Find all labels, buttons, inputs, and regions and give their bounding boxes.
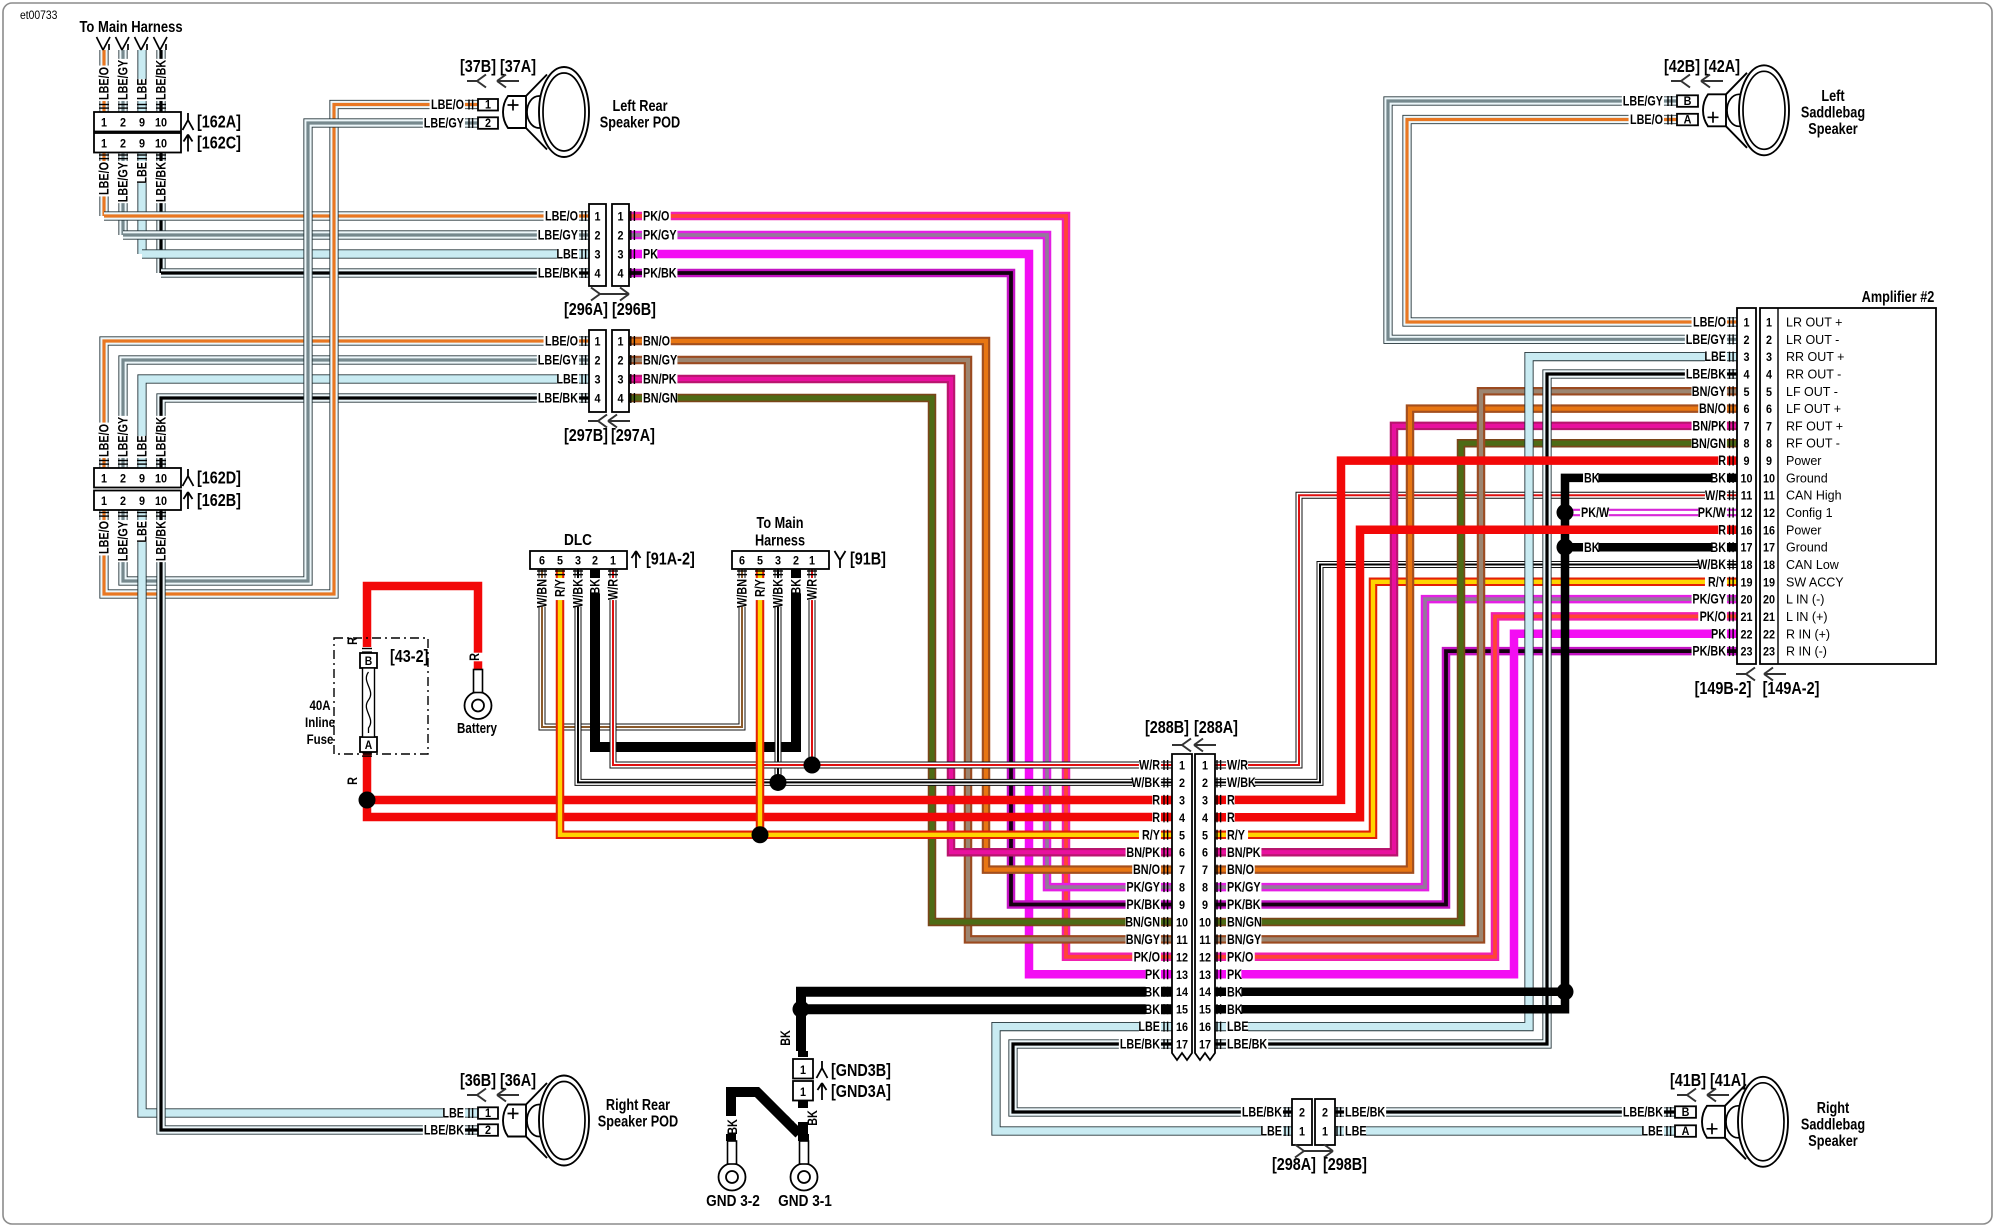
svg-text:8: 8: [1743, 438, 1749, 451]
svg-text:GND 3-2: GND 3-2: [706, 1193, 760, 1210]
svg-text:LBE/BK: LBE/BK: [538, 390, 578, 405]
svg-text:1: 1: [594, 336, 601, 349]
svg-text:8: 8: [1766, 438, 1772, 451]
svg-text:B: B: [1684, 95, 1692, 108]
svg-text:3: 3: [1202, 795, 1208, 808]
svg-text:W/BK: W/BK: [1697, 557, 1726, 572]
svg-text:LBE/GY: LBE/GY: [538, 352, 578, 367]
svg-text:BN/PK: BN/PK: [1692, 418, 1726, 433]
svg-text:R: R: [467, 653, 482, 661]
svg-text:Harness: Harness: [755, 532, 805, 549]
svg-text:LBE: LBE: [134, 435, 149, 457]
svg-text:PK/O: PK/O: [1700, 609, 1726, 624]
svg-text:LBE/O: LBE/O: [1693, 314, 1726, 329]
svg-text:R/Y: R/Y: [1708, 574, 1726, 589]
svg-text:20: 20: [1740, 594, 1752, 607]
svg-text:[149A-2]: [149A-2]: [1763, 679, 1820, 699]
svg-text:BK: BK: [1584, 540, 1600, 555]
svg-text:W/R: W/R: [1227, 757, 1248, 772]
svg-text:[43-2]: [43-2]: [390, 647, 428, 667]
svg-text:16: 16: [1176, 1022, 1188, 1035]
svg-text:PK/O: PK/O: [643, 208, 669, 223]
svg-text:1: 1: [617, 211, 624, 224]
svg-text:1: 1: [809, 555, 816, 568]
svg-text:[GND3A]: [GND3A]: [831, 1082, 891, 1102]
svg-text:1: 1: [1202, 760, 1209, 773]
svg-text:10: 10: [155, 473, 167, 486]
svg-text:PK/BK: PK/BK: [1126, 897, 1160, 912]
svg-text:W/BK: W/BK: [1227, 775, 1256, 790]
svg-text:4: 4: [1202, 812, 1209, 825]
svg-text:5: 5: [557, 555, 564, 568]
svg-text:BN/GN: BN/GN: [643, 390, 678, 405]
svg-text:R/Y: R/Y: [552, 579, 567, 597]
svg-text:[36A]: [36A]: [500, 1071, 536, 1091]
svg-text:W/R: W/R: [605, 579, 620, 600]
svg-text:To Main: To Main: [756, 515, 803, 532]
svg-text:W/BK: W/BK: [1131, 775, 1160, 790]
svg-text:Left Rear: Left Rear: [612, 98, 667, 115]
svg-text:11: 11: [1176, 934, 1188, 947]
svg-text:12: 12: [1176, 952, 1188, 965]
svg-text:BK: BK: [587, 579, 602, 595]
svg-text:4: 4: [617, 393, 624, 406]
svg-text:LBE/BK: LBE/BK: [1120, 1036, 1160, 1051]
svg-text:LBE/BK: LBE/BK: [153, 162, 168, 202]
svg-text:7: 7: [1179, 865, 1185, 878]
svg-text:40A: 40A: [309, 697, 330, 713]
svg-text:BN/GY: BN/GY: [643, 352, 677, 367]
svg-text:BK: BK: [1227, 1002, 1243, 1017]
svg-text:PK/BK: PK/BK: [643, 265, 677, 280]
svg-text:[162A]: [162A]: [197, 112, 241, 132]
svg-text:LBE/BK: LBE/BK: [153, 417, 168, 457]
svg-text:9: 9: [139, 496, 145, 509]
svg-text:23: 23: [1763, 646, 1775, 659]
svg-text:9: 9: [139, 117, 145, 130]
svg-text:LR OUT -: LR OUT -: [1786, 333, 1839, 347]
svg-text:1: 1: [1179, 760, 1186, 773]
svg-text:LBE: LBE: [1227, 1019, 1249, 1034]
svg-text:15: 15: [1199, 1004, 1212, 1017]
svg-text:LBE: LBE: [556, 371, 578, 386]
svg-text:LBE/O: LBE/O: [96, 424, 111, 457]
svg-text:2: 2: [592, 555, 598, 568]
svg-text:3: 3: [1179, 795, 1185, 808]
svg-text:16: 16: [1199, 1022, 1211, 1035]
svg-text:BK: BK: [1584, 470, 1600, 485]
svg-text:10: 10: [1763, 473, 1775, 486]
svg-text:R: R: [345, 777, 360, 785]
svg-text:Power: Power: [1786, 523, 1821, 537]
svg-text:R: R: [1718, 453, 1726, 468]
svg-text:RR OUT +: RR OUT +: [1786, 350, 1844, 364]
svg-text:2: 2: [1299, 1107, 1305, 1120]
svg-text:10: 10: [1740, 473, 1752, 486]
svg-text:RR OUT -: RR OUT -: [1786, 367, 1841, 381]
svg-text:1: 1: [101, 138, 108, 151]
svg-text:9: 9: [139, 473, 145, 486]
svg-text:2: 2: [594, 355, 600, 368]
svg-text:6: 6: [1743, 404, 1749, 417]
svg-text:BK: BK: [725, 1119, 740, 1135]
svg-text:2: 2: [1766, 334, 1772, 347]
svg-text:2: 2: [485, 117, 491, 130]
svg-text:LBE: LBE: [1345, 1123, 1367, 1138]
svg-text:[91A-2]: [91A-2]: [646, 549, 695, 569]
svg-text:3: 3: [594, 374, 600, 387]
svg-text:PK/W: PK/W: [1698, 505, 1727, 520]
svg-text:12: 12: [1199, 952, 1211, 965]
svg-text:PK/GY: PK/GY: [1126, 880, 1160, 895]
svg-text:3: 3: [617, 249, 623, 262]
svg-text:LBE/O: LBE/O: [545, 333, 578, 348]
svg-text:B: B: [1682, 1106, 1690, 1119]
svg-text:R: R: [1718, 522, 1726, 537]
svg-text:Speaker: Speaker: [1808, 121, 1858, 138]
svg-text:BN/O: BN/O: [1227, 862, 1254, 877]
svg-text:17: 17: [1176, 1039, 1188, 1052]
svg-text:Config 1: Config 1: [1786, 506, 1833, 520]
svg-text:3: 3: [594, 249, 600, 262]
svg-text:3: 3: [775, 555, 781, 568]
svg-text:B: B: [365, 656, 373, 669]
svg-text:SW ACCY: SW ACCY: [1786, 575, 1844, 589]
svg-text:W/BN: W/BN: [534, 579, 549, 608]
svg-text:LBE: LBE: [442, 1105, 464, 1120]
svg-text:18: 18: [1740, 560, 1752, 573]
svg-text:LBE: LBE: [1641, 1123, 1663, 1138]
svg-text:[297B]: [297B]: [564, 426, 608, 446]
svg-text:2: 2: [120, 496, 126, 509]
svg-text:LBE/BK: LBE/BK: [1242, 1104, 1282, 1119]
svg-text:17: 17: [1740, 542, 1752, 555]
svg-text:LBE/BK: LBE/BK: [1686, 366, 1726, 381]
svg-text:RF OUT -: RF OUT -: [1786, 437, 1840, 451]
svg-text:14: 14: [1176, 987, 1189, 1000]
svg-text:BK: BK: [1710, 540, 1726, 555]
svg-text:L IN (+): L IN (+): [1786, 610, 1828, 624]
svg-text:[42B]: [42B]: [1664, 57, 1700, 77]
svg-text:9: 9: [1202, 900, 1208, 913]
svg-text:BN/GN: BN/GN: [1125, 914, 1160, 929]
svg-text:11: 11: [1741, 490, 1753, 503]
svg-text:R: R: [1152, 792, 1160, 807]
svg-text:[41B]: [41B]: [1670, 1071, 1706, 1091]
svg-text:BN/O: BN/O: [643, 333, 670, 348]
svg-text:LBE/GY: LBE/GY: [115, 417, 130, 457]
svg-text:Battery: Battery: [457, 720, 498, 737]
svg-text:8: 8: [1179, 882, 1185, 895]
svg-text:1: 1: [610, 555, 617, 568]
svg-text:1: 1: [800, 1065, 807, 1078]
svg-text:1: 1: [594, 211, 601, 224]
svg-text:Right: Right: [1817, 1100, 1850, 1117]
svg-text:[297A]: [297A]: [611, 426, 655, 446]
svg-text:PK/BK: PK/BK: [1227, 897, 1261, 912]
svg-text:BK: BK: [788, 579, 803, 595]
svg-text:2: 2: [793, 555, 799, 568]
svg-text:BK: BK: [1144, 984, 1160, 999]
svg-text:5: 5: [1766, 386, 1773, 399]
svg-text:LBE: LBE: [1138, 1019, 1160, 1034]
svg-text:LBE: LBE: [1704, 349, 1726, 364]
svg-text:4: 4: [1766, 369, 1773, 382]
svg-text:17: 17: [1199, 1039, 1211, 1052]
svg-text:12: 12: [1740, 508, 1752, 521]
svg-text:9: 9: [1766, 456, 1772, 469]
svg-text:4: 4: [594, 268, 601, 281]
svg-text:1: 1: [101, 117, 108, 130]
svg-text:CAN Low: CAN Low: [1786, 558, 1840, 572]
svg-text:22: 22: [1740, 629, 1752, 642]
svg-text:13: 13: [1176, 969, 1188, 982]
svg-text:W/BK: W/BK: [770, 579, 785, 608]
svg-text:LBE/O: LBE/O: [1630, 112, 1663, 127]
svg-text:19: 19: [1740, 577, 1752, 590]
svg-text:3: 3: [575, 555, 581, 568]
svg-text:[298A]: [298A]: [1272, 1155, 1316, 1175]
svg-text:3: 3: [1743, 352, 1749, 365]
svg-text:DLC: DLC: [564, 532, 592, 549]
svg-text:2: 2: [1743, 334, 1749, 347]
svg-text:PK/BK: PK/BK: [1692, 644, 1726, 659]
svg-text:LR OUT +: LR OUT +: [1786, 316, 1842, 330]
svg-text:1: 1: [800, 1087, 807, 1100]
svg-text:[41A]: [41A]: [1710, 1071, 1746, 1091]
svg-text:Amplifier #2: Amplifier #2: [1862, 289, 1935, 306]
svg-text:22: 22: [1763, 629, 1775, 642]
svg-text:19: 19: [1763, 577, 1775, 590]
svg-text:BK: BK: [778, 1030, 793, 1046]
svg-text:20: 20: [1763, 594, 1775, 607]
svg-text:CAN High: CAN High: [1786, 489, 1842, 503]
svg-text:LBE/BK: LBE/BK: [424, 1122, 464, 1137]
svg-text:[37A]: [37A]: [500, 57, 536, 77]
svg-text:2: 2: [1202, 777, 1208, 790]
svg-text:PK/GY: PK/GY: [1692, 592, 1726, 607]
svg-text:4: 4: [1743, 369, 1750, 382]
svg-text:6: 6: [739, 555, 745, 568]
svg-text:4: 4: [1179, 812, 1186, 825]
svg-text:W/BN: W/BN: [734, 579, 749, 608]
svg-text:LBE/BK: LBE/BK: [1227, 1036, 1267, 1051]
svg-text:BN/O: BN/O: [1133, 862, 1160, 877]
svg-text:2: 2: [594, 230, 600, 243]
svg-text:[162B]: [162B]: [197, 491, 241, 511]
svg-text:13: 13: [1199, 969, 1211, 982]
svg-text:7: 7: [1202, 865, 1208, 878]
svg-text:BN/PK: BN/PK: [1126, 845, 1160, 860]
svg-text:LBE/O: LBE/O: [96, 521, 111, 554]
svg-text:3: 3: [617, 374, 623, 387]
svg-text:6: 6: [1766, 404, 1772, 417]
svg-text:Speaker POD: Speaker POD: [598, 1113, 678, 1130]
svg-text:LBE/GY: LBE/GY: [115, 162, 130, 202]
svg-text:[162C]: [162C]: [197, 133, 241, 153]
svg-text:Power: Power: [1786, 454, 1821, 468]
svg-text:BN/GY: BN/GY: [1227, 932, 1261, 947]
svg-text:LF OUT -: LF OUT -: [1786, 385, 1838, 399]
svg-text:W/BK: W/BK: [570, 579, 585, 608]
svg-text:2: 2: [617, 355, 623, 368]
svg-text:16: 16: [1740, 525, 1752, 538]
svg-text:A: A: [365, 740, 373, 753]
svg-text:LBE/O: LBE/O: [431, 97, 464, 112]
svg-text:[296B]: [296B]: [612, 300, 656, 320]
svg-text:12: 12: [1763, 508, 1775, 521]
svg-text:10: 10: [1199, 917, 1211, 930]
svg-text:LBE/GY: LBE/GY: [115, 60, 130, 100]
svg-text:2: 2: [1322, 1107, 1328, 1120]
svg-text:BK: BK: [1144, 1002, 1160, 1017]
svg-text:Speaker: Speaker: [1808, 1133, 1858, 1150]
svg-text:PK: PK: [1227, 967, 1242, 982]
svg-text:LBE: LBE: [556, 246, 578, 261]
svg-text:W/R: W/R: [1139, 757, 1160, 772]
svg-text:10: 10: [155, 117, 167, 130]
svg-text:21: 21: [1763, 611, 1776, 624]
svg-text:BK: BK: [805, 1110, 820, 1126]
svg-text:RF OUT +: RF OUT +: [1786, 419, 1843, 433]
svg-text:[37B]: [37B]: [460, 57, 496, 77]
svg-text:BN/PK: BN/PK: [643, 371, 677, 386]
svg-text:7: 7: [1766, 421, 1772, 434]
svg-text:23: 23: [1740, 646, 1752, 659]
svg-text:5: 5: [1743, 386, 1750, 399]
svg-text:PK: PK: [643, 246, 658, 261]
svg-text:10: 10: [155, 496, 167, 509]
svg-text:LBE/BK: LBE/BK: [153, 521, 168, 561]
svg-text:L IN (-): L IN (-): [1786, 593, 1824, 607]
svg-text:BK: BK: [1710, 470, 1726, 485]
svg-text:1: 1: [101, 496, 108, 509]
svg-text:5: 5: [1202, 830, 1209, 843]
svg-text:5: 5: [1179, 830, 1186, 843]
svg-text:4: 4: [594, 393, 601, 406]
svg-text:[162D]: [162D]: [197, 468, 241, 488]
svg-text:BN/PK: BN/PK: [1227, 845, 1261, 860]
svg-text:15: 15: [1176, 1004, 1189, 1017]
svg-text:PK/GY: PK/GY: [1227, 880, 1261, 895]
svg-text:1: 1: [1299, 1126, 1306, 1139]
svg-text:PK/O: PK/O: [1227, 949, 1253, 964]
svg-text:LBE: LBE: [134, 521, 149, 543]
svg-text:[298B]: [298B]: [1323, 1155, 1367, 1175]
svg-text:LBE/BK: LBE/BK: [153, 60, 168, 100]
svg-text:2: 2: [617, 230, 623, 243]
svg-text:To Main Harness: To Main Harness: [79, 19, 182, 36]
svg-text:21: 21: [1740, 611, 1753, 624]
svg-text:LBE/O: LBE/O: [96, 162, 111, 195]
svg-text:PK: PK: [1145, 967, 1160, 982]
svg-text:2: 2: [1179, 777, 1185, 790]
svg-text:PK: PK: [1711, 626, 1726, 641]
svg-text:[296A]: [296A]: [564, 300, 608, 320]
svg-text:9: 9: [1179, 900, 1185, 913]
svg-text:BN/GY: BN/GY: [1126, 932, 1160, 947]
svg-text:BK: BK: [1227, 984, 1243, 999]
svg-text:BN/GN: BN/GN: [1227, 914, 1262, 929]
svg-text:PK/GY: PK/GY: [643, 227, 677, 242]
svg-text:BN/GY: BN/GY: [1692, 384, 1726, 399]
svg-text:LBE/GY: LBE/GY: [1686, 332, 1726, 347]
svg-text:6: 6: [539, 555, 545, 568]
svg-text:6: 6: [1179, 847, 1185, 860]
svg-text:PK/W: PK/W: [1581, 505, 1610, 520]
svg-text:16: 16: [1763, 525, 1775, 538]
svg-text:BN/O: BN/O: [1699, 401, 1726, 416]
svg-text:A: A: [1684, 114, 1692, 127]
svg-text:1: 1: [485, 99, 492, 112]
svg-text:1: 1: [485, 1107, 492, 1120]
svg-text:BN/GN: BN/GN: [1691, 436, 1726, 451]
svg-text:1: 1: [617, 336, 624, 349]
svg-text:Left: Left: [1821, 88, 1845, 105]
svg-text:R/Y: R/Y: [752, 579, 767, 597]
svg-text:W/R: W/R: [1705, 488, 1726, 503]
svg-text:R IN (+): R IN (+): [1786, 627, 1830, 641]
svg-text:2: 2: [120, 117, 126, 130]
svg-text:[288B]: [288B]: [1145, 718, 1189, 738]
svg-text:6: 6: [1202, 847, 1208, 860]
svg-text:[36B]: [36B]: [460, 1071, 496, 1091]
svg-text:[149B-2]: [149B-2]: [1695, 679, 1752, 699]
svg-text:PK/O: PK/O: [1134, 949, 1160, 964]
svg-text:LBE/BK: LBE/BK: [538, 265, 578, 280]
svg-text:LBE/GY: LBE/GY: [115, 521, 130, 561]
svg-text:LBE/GY: LBE/GY: [1623, 93, 1663, 108]
svg-text:LBE/O: LBE/O: [96, 67, 111, 100]
svg-text:Saddlebag: Saddlebag: [1801, 1116, 1865, 1133]
svg-text:8: 8: [1202, 882, 1208, 895]
svg-text:Ground: Ground: [1786, 471, 1828, 485]
svg-text:[288A]: [288A]: [1194, 718, 1238, 738]
svg-text:[42A]: [42A]: [1704, 57, 1740, 77]
svg-text:4: 4: [617, 268, 624, 281]
svg-text:17: 17: [1763, 542, 1775, 555]
svg-text:11: 11: [1199, 934, 1211, 947]
svg-text:5: 5: [757, 555, 764, 568]
svg-text:LBE/BK: LBE/BK: [1623, 1104, 1663, 1119]
svg-text:LBE: LBE: [1260, 1123, 1282, 1138]
svg-text:et00733: et00733: [20, 10, 57, 23]
svg-text:Inline: Inline: [305, 714, 335, 730]
svg-text:R IN (-): R IN (-): [1786, 645, 1827, 659]
svg-text:LBE: LBE: [134, 78, 149, 100]
svg-text:LBE/GY: LBE/GY: [538, 227, 578, 242]
svg-text:1: 1: [1743, 317, 1750, 330]
svg-text:[GND3B]: [GND3B]: [831, 1061, 891, 1081]
svg-text:LBE/BK: LBE/BK: [1345, 1104, 1385, 1119]
svg-text:11: 11: [1763, 490, 1775, 503]
svg-text:R/Y: R/Y: [1227, 827, 1245, 842]
svg-text:10: 10: [155, 138, 167, 151]
svg-text:3: 3: [1766, 352, 1772, 365]
svg-text:[91B]: [91B]: [850, 549, 886, 569]
svg-text:18: 18: [1763, 560, 1775, 573]
svg-text:LBE: LBE: [134, 162, 149, 184]
svg-text:7: 7: [1743, 421, 1749, 434]
svg-text:2: 2: [120, 138, 126, 151]
svg-text:1: 1: [101, 473, 108, 486]
svg-text:R: R: [1227, 810, 1235, 825]
svg-text:10: 10: [1176, 917, 1188, 930]
svg-text:LBE/GY: LBE/GY: [424, 115, 464, 130]
svg-text:A: A: [1682, 1125, 1690, 1138]
svg-text:W/R: W/R: [804, 579, 819, 600]
svg-text:Right Rear: Right Rear: [606, 1097, 671, 1114]
